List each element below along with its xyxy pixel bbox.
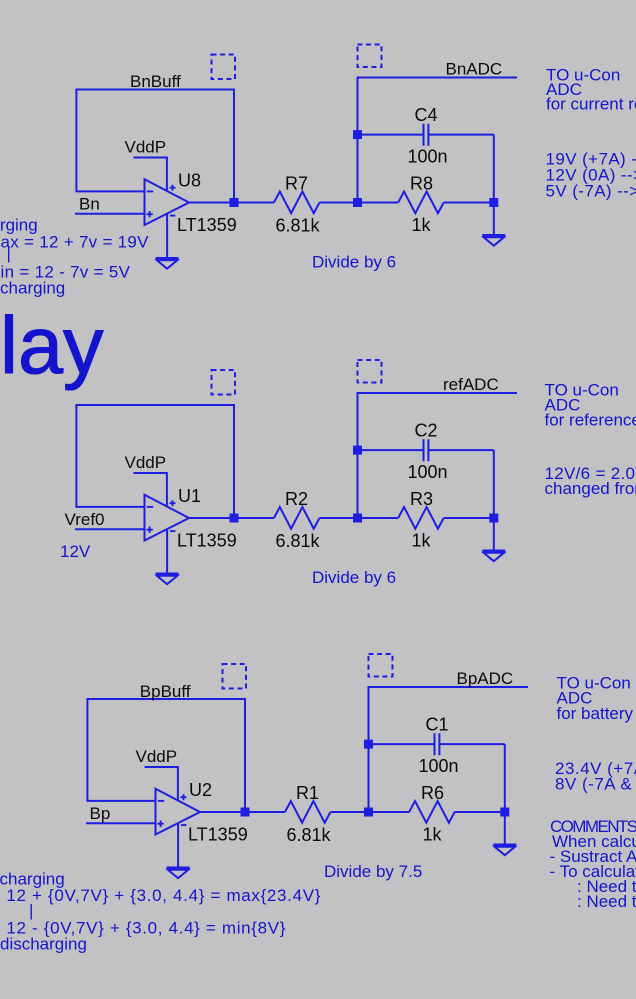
svg-text:BpADC: BpADC — [457, 669, 514, 688]
svg-text:Bn: Bn — [79, 195, 100, 214]
svg-text:for battery voltage: for battery voltage — [557, 704, 636, 723]
svg-text:R7: R7 — [285, 174, 308, 194]
svg-text:R8: R8 — [410, 174, 433, 194]
svg-text:6.81k: 6.81k — [276, 216, 321, 236]
svg-text:12V: 12V — [60, 542, 91, 561]
svg-text:8V (-7A & discharging): 8V (-7A & discharging) — [555, 775, 636, 794]
svg-text:VddP: VddP — [125, 453, 167, 472]
svg-text:VddP: VddP — [125, 138, 167, 157]
svg-text:Divide by 6: Divide by 6 — [312, 253, 396, 272]
svg-text:U2: U2 — [189, 780, 212, 800]
svg-text:100n: 100n — [419, 756, 459, 776]
svg-text:5V (-7A) --> 0.83V: 5V (-7A) --> 0.83V — [546, 181, 636, 200]
svg-text:ax = 12 + 7v = 19V: ax = 12 + 7v = 19V — [1, 233, 150, 252]
svg-text:6.81k: 6.81k — [276, 531, 321, 551]
svg-text:for reference voltage: for reference voltage — [545, 411, 636, 430]
svg-text:1k: 1k — [423, 825, 443, 845]
svg-text:Divide by 7.5: Divide by 7.5 — [324, 862, 422, 881]
svg-text:R3: R3 — [410, 489, 433, 509]
svg-text:12 + {0V,7V} + {3.0, 4.4} = ma: 12 + {0V,7V} + {3.0, 4.4} = max{23.4V} — [6, 886, 320, 905]
svg-text:|: | — [7, 244, 11, 263]
svg-text:Divide by 6: Divide by 6 — [312, 568, 396, 587]
svg-text:BnBuff: BnBuff — [130, 72, 181, 91]
svg-text:changed from 2.5V ref: changed from 2.5V ref — [545, 479, 636, 498]
svg-text:refADC: refADC — [443, 375, 499, 394]
svg-text:LT1359: LT1359 — [177, 531, 237, 551]
svg-text:|: | — [29, 901, 33, 920]
svg-text:R2: R2 — [285, 489, 308, 509]
svg-text:U8: U8 — [178, 171, 201, 191]
svg-text:R6: R6 — [421, 783, 444, 803]
svg-text:U1: U1 — [178, 486, 201, 506]
svg-text:for current reading: for current reading — [546, 95, 636, 114]
svg-text:lay: lay — [0, 301, 104, 391]
svg-text:6.81k: 6.81k — [287, 825, 332, 845]
svg-text:100n: 100n — [408, 147, 448, 167]
svg-text:discharging: discharging — [0, 279, 65, 298]
svg-text:LT1359: LT1359 — [188, 825, 248, 845]
svg-text:LT1359: LT1359 — [177, 215, 237, 235]
svg-text:100n: 100n — [408, 462, 448, 482]
svg-text:C1: C1 — [426, 714, 449, 734]
svg-text:VddP: VddP — [136, 747, 178, 766]
svg-text:1k: 1k — [412, 215, 432, 235]
svg-text:C2: C2 — [415, 420, 438, 440]
svg-text:BpBuff: BpBuff — [140, 682, 191, 701]
svg-text:Vref0: Vref0 — [65, 510, 105, 529]
svg-text:BnADC: BnADC — [446, 60, 503, 79]
svg-text:discharging: discharging — [0, 935, 87, 954]
svg-text:C4: C4 — [415, 105, 438, 125]
svg-text:Bp: Bp — [90, 804, 111, 823]
svg-text:: Need to scale: : Need to scale — [577, 892, 636, 911]
svg-text:1k: 1k — [412, 531, 432, 551]
svg-text:R1: R1 — [296, 783, 319, 803]
